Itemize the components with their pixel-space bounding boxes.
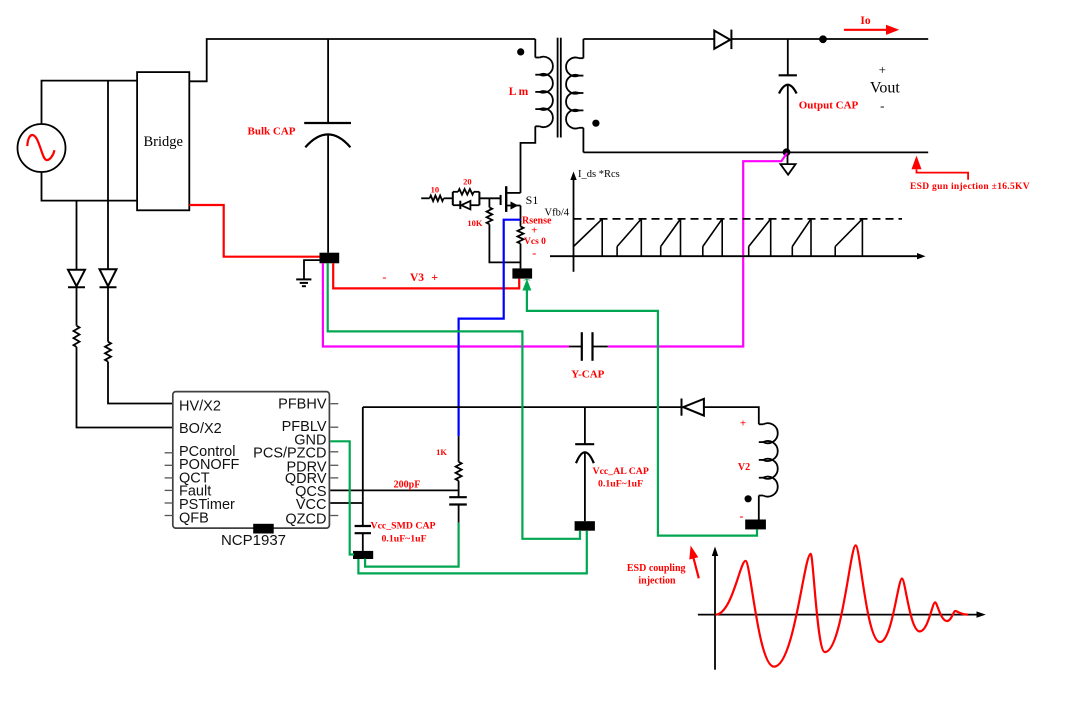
wire green Rsense pad to V2 pad: [527, 289, 757, 536]
svg-text:+: +: [740, 418, 746, 430]
arrow Io: [844, 25, 899, 35]
wire red bridge DC output: [189, 205, 319, 257]
arrow ESD gun injection: [912, 156, 969, 180]
svg-text:-: -: [740, 509, 744, 523]
polarity dot primary: [517, 48, 524, 55]
svg-text:Bulk CAP: Bulk CAP: [248, 126, 296, 138]
svg-text:S1: S1: [526, 193, 539, 207]
wire blue current sense to QCS: [459, 220, 521, 436]
svg-text:0.1uF~1uF: 0.1uF~1uF: [382, 534, 427, 545]
diode D1 (BO branch): [68, 270, 85, 287]
pad primary return (bulk): [320, 253, 340, 264]
svg-text:-: -: [382, 270, 386, 284]
wire AC top to bridge: [42, 81, 138, 124]
diode D6 aux rectifier: [682, 399, 704, 416]
label ESD coupling injection: [627, 563, 686, 587]
node secondary ground (dot): [783, 148, 791, 156]
wire bridge top to bulk rail: [189, 39, 535, 81]
svg-text:+: +: [431, 270, 438, 284]
wire VCC rail: [363, 406, 682, 408]
svg-text:V2: V2: [738, 462, 750, 473]
wire: [444, 197, 453, 199]
svg-text:Vout: Vout: [870, 80, 900, 97]
plot axes ESD waveform: [698, 547, 986, 670]
svg-text:QFB: QFB: [179, 510, 209, 526]
resistor 20 with clamp diode (parallel): [453, 189, 480, 205]
curve ESD ringing: [716, 545, 969, 666]
svg-text:1K: 1K: [436, 447, 447, 457]
wire output rail: [731, 38, 928, 40]
wire QCS: [330, 489, 458, 491]
svg-text:+: +: [879, 62, 886, 77]
wire green SMD pad to AL pad: [358, 531, 586, 574]
capacitor Vcc_AL CAP: [575, 407, 594, 521]
svg-text:Bridge: Bridge: [143, 134, 182, 150]
svg-text:I_ds *Rcs: I_ds *Rcs: [578, 169, 620, 180]
winding V2: [759, 423, 778, 519]
label Vcc_SMD CAP: [371, 521, 436, 545]
label V3: [382, 270, 438, 284]
resistor R1 (BO branch): [74, 326, 80, 347]
wire source to Rsense: [520, 206, 522, 227]
pad Vcc_SMD ground: [353, 551, 373, 559]
label Vout: [870, 62, 900, 113]
wire output cap top: [787, 39, 789, 75]
resistor 10: [430, 196, 444, 202]
pad Vcc_AL ground: [575, 521, 595, 531]
resistor Rsense: [518, 227, 524, 244]
op-amp/controller U1 NCP1937: [173, 392, 330, 528]
polarity dot secondary: [592, 120, 599, 127]
capacitor Y-CAP: [569, 332, 608, 361]
svg-text:PFBHV: PFBHV: [278, 397, 327, 413]
pad IC thermal (NCP1937): [253, 524, 274, 534]
transformer core: [558, 38, 561, 138]
IC right pin stubs: [330, 404, 338, 516]
node output (dot): [819, 35, 827, 43]
arrow ESD coupling: [689, 546, 699, 579]
AC source V1: [18, 124, 66, 172]
wire bulk cap top: [327, 39, 329, 123]
transistor S1 (N-MOSFET): [501, 186, 521, 212]
resistor R2 (HV branch): [105, 342, 111, 362]
svg-text:10: 10: [431, 184, 440, 194]
wire stub to chassis arrow: [787, 152, 789, 164]
bridge rectifier: [137, 72, 189, 210]
ground: [296, 279, 311, 286]
svg-text:Output CAP: Output CAP: [799, 100, 859, 112]
diode D5 output rectifier: [714, 30, 731, 49]
resistor 1K: [456, 436, 462, 497]
wire secondary top rail: [583, 38, 714, 40]
wire to ground: [304, 260, 320, 279]
capacitor Vcc_SMD CAP: [355, 526, 371, 551]
wire red V3 to Rsense pad: [333, 263, 519, 288]
svg-text:ESD gun injection ±16.5KV: ESD gun injection ±16.5KV: [910, 182, 1030, 192]
wire: [76, 287, 78, 326]
capacitor 200pF: [449, 497, 467, 522]
svg-text:200pF: 200pF: [394, 480, 421, 491]
svg-text:Vcc_SMD CAP: Vcc_SMD CAP: [371, 521, 436, 532]
pad Rsense return: [512, 268, 532, 278]
svg-text:Y-CAP: Y-CAP: [571, 369, 604, 381]
svg-text:Vcc_AL CAP: Vcc_AL CAP: [593, 466, 649, 477]
wire VCC riser: [362, 407, 364, 525]
wire BO/X2 branch: [76, 201, 78, 270]
svg-text:L m: L m: [509, 86, 529, 98]
svg-text:injection: injection: [638, 576, 676, 587]
wire magenta secondary side: [608, 153, 787, 347]
svg-text:QZCD: QZCD: [285, 512, 326, 528]
transformer T1 secondary: [566, 39, 583, 152]
arrow chassis (open): [780, 164, 795, 175]
diode D2 (HV branch): [100, 269, 117, 287]
wire aux rail to V2: [704, 407, 759, 424]
svg-text:10K: 10K: [467, 218, 483, 228]
label V2: [738, 418, 750, 524]
svg-text:-: -: [880, 98, 884, 113]
svg-text:+: +: [531, 225, 537, 237]
svg-text:V3: V3: [410, 272, 424, 284]
svg-text:BO/X2: BO/X2: [179, 421, 222, 437]
pad V2 return: [745, 520, 766, 530]
polarity dot V2: [745, 495, 752, 502]
capacitor Bulk CAP: [304, 123, 351, 253]
resistor 10K: [487, 198, 521, 262]
transformer T1 primary Lm: [521, 39, 553, 193]
wire gate lead: [421, 197, 429, 199]
sawtooth ramps: [574, 219, 863, 256]
IC left pin stubs: [165, 453, 173, 516]
svg-text:0.1uF~1uF: 0.1uF~1uF: [598, 479, 643, 490]
svg-text:NCP1937: NCP1937: [221, 532, 286, 549]
svg-text:HV/X2: HV/X2: [179, 398, 221, 414]
wire to HV/X2 pin: [108, 362, 173, 404]
wire to BO/X2 pin: [77, 347, 173, 428]
wire green bulk pad to AL pad: [328, 263, 580, 539]
dashed level line Vfb/4: [574, 218, 903, 220]
wire: [520, 244, 522, 269]
wire: [107, 287, 109, 342]
svg-text:20: 20: [463, 177, 472, 187]
capacitor Output CAP: [779, 75, 797, 152]
label Rsense: [522, 216, 552, 261]
wire HV/X2 branch: [107, 81, 109, 269]
svg-text:Vfb/4: Vfb/4: [545, 208, 570, 219]
wire green GND pin to SMD pad: [330, 441, 354, 554]
wire secondary bottom rail: [583, 151, 928, 153]
wire green 200pF to SMD pad: [365, 523, 459, 567]
wire magenta primary side: [323, 263, 569, 346]
wire AC bottom to bridge: [42, 172, 138, 201]
diode gate clamp: [460, 201, 470, 210]
wire VCC pin: [330, 502, 363, 504]
wire gate to mosfet: [479, 197, 500, 199]
arrow green into Rsense pad: [523, 279, 532, 280]
plot axes I_ds*Rcs: [550, 172, 926, 272]
svg-text:VCC: VCC: [296, 497, 327, 513]
svg-text:Io: Io: [860, 15, 870, 27]
label Vcc_AL CAP: [593, 466, 649, 490]
svg-text:ESD coupling: ESD coupling: [627, 563, 686, 574]
svg-text:-: -: [532, 246, 536, 260]
